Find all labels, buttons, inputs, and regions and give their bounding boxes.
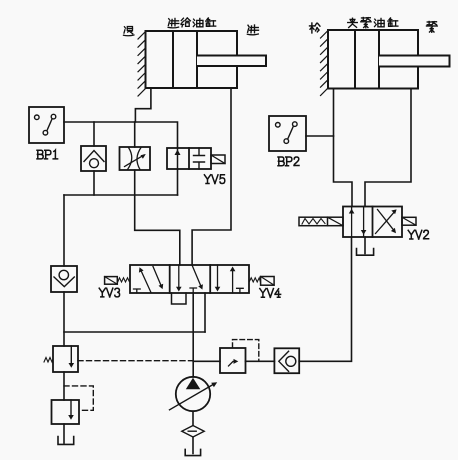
wire: pump to filter and tank xyxy=(192,411,194,453)
YV2 right solenoid xyxy=(402,217,416,225)
label 进 xyxy=(247,25,258,35)
check valve C2 (left riser) xyxy=(51,266,77,292)
pressure switch BP2 xyxy=(269,116,306,166)
wire: valve T port drop xyxy=(204,293,206,332)
wire: lower manifold line (y=195) xyxy=(64,194,178,196)
wire: throttle to valve port A xyxy=(135,170,180,265)
feed cylinder mounting wall hatch xyxy=(138,32,146,97)
wire: left main riser below check valve xyxy=(63,292,65,346)
filter F1 xyxy=(182,426,204,438)
directional valve V1 (4/3, YV3/YV4) xyxy=(99,265,280,304)
wire: BP2 to clamp line xyxy=(306,135,334,137)
variable pump P1 xyxy=(170,377,218,411)
wire: sequence valve to check valve xyxy=(246,360,275,362)
wire: left main riser (x=64) xyxy=(63,195,65,266)
V1 centre position xyxy=(178,265,180,289)
solenoid valve YV5 (2/2) xyxy=(167,148,225,184)
wire: feed cylinder rod-end to valve port B xyxy=(192,88,231,265)
relief valve RV2 xyxy=(52,386,94,424)
throttle valve L1 xyxy=(120,147,151,170)
wire: valve P port to pump xyxy=(192,293,194,377)
wire: check valve to YV2 P riser xyxy=(299,237,351,361)
V1 tank bracket xyxy=(172,293,187,304)
wire: pump outlet branch to sequence valve xyxy=(193,360,220,362)
wire: check valve column upper xyxy=(93,122,95,146)
sequence valve SV1 xyxy=(220,340,259,373)
tank T3 (YV2) xyxy=(357,249,374,256)
relief valve RV1 xyxy=(44,346,193,372)
tank T2 (pump suction) xyxy=(185,449,200,455)
wire: relief valve stack link xyxy=(63,372,65,400)
wire: clamp cylinder left port to YV2 A xyxy=(334,89,353,207)
solenoid YV3 xyxy=(105,277,118,285)
spring and solenoid YV4 xyxy=(249,278,260,282)
wire: BP1 pressure line (y=122) xyxy=(64,122,178,148)
cylinder 1 feed (进给油缸) xyxy=(146,31,267,88)
wire: YV2 T port to tank xyxy=(364,237,366,254)
label 松 xyxy=(310,23,320,33)
wire: clamp cylinder right port to YV2 B xyxy=(365,89,411,207)
tank T1 (relief) xyxy=(58,437,74,445)
V1 right position arrows xyxy=(217,265,219,289)
wire: feed cylinder cap-end port down-jog xyxy=(135,88,151,122)
label 进给油缸 xyxy=(168,18,179,27)
V1 left position arrows xyxy=(141,270,152,293)
wire: check valve column lower xyxy=(93,171,95,195)
label 退 xyxy=(124,26,134,35)
pressure switch BP1 xyxy=(29,107,64,159)
wire: YV5 bottom to manifold xyxy=(177,169,179,195)
check valve C1 (under BP1 line) xyxy=(81,146,106,171)
wire: relief valve to tank xyxy=(63,424,65,443)
wire: throttle drop from pressure line xyxy=(134,122,136,147)
clamp cylinder mounting wall hatch xyxy=(321,31,329,96)
cylinder 2 clamp (夹紧油缸) xyxy=(328,30,450,89)
solenoid valve YV2 (4/2) xyxy=(299,207,429,240)
check valve C3 xyxy=(274,348,299,373)
label 紧 xyxy=(427,22,438,33)
YV2 left spring+solenoid block xyxy=(299,217,343,226)
wire: main pressure header (y=332) xyxy=(64,331,205,333)
label 夹紧油缸 xyxy=(348,18,358,27)
